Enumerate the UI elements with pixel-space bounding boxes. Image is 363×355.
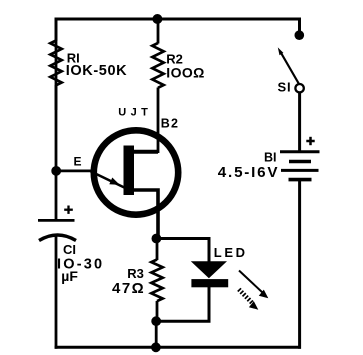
svg-text:IOOΩ: IOOΩ: [166, 64, 205, 80]
battery B1: [280, 152, 320, 180]
diode LED cathode bar: [191, 279, 228, 287]
capacitor C1 top plate: [38, 219, 75, 222]
LED light arrow 2 (hatched): [239, 289, 258, 309]
node emitter junction dot: [51, 166, 61, 176]
transistor B1 lead: [130, 190, 158, 240]
node bottom rail junction dot: [151, 342, 161, 352]
diode LED triangle: [191, 261, 227, 278]
svg-text:IOK-50K: IOK-50K: [66, 63, 127, 79]
svg-text:BI: BI: [264, 151, 277, 165]
capacitor plus sign: [64, 206, 73, 214]
wire left lower vertical: [55, 234, 58, 349]
wire R3 to bottom rail: [155, 321, 158, 347]
svg-text:47Ω: 47Ω: [112, 280, 145, 297]
wire LED branch bottom: [156, 287, 209, 321]
transistor B2 lead: [130, 150, 158, 154]
svg-text:CI: CI: [63, 242, 76, 257]
node switch upper contact dot: [295, 30, 305, 40]
wire top horizontal: [55, 18, 301, 21]
wire switch to battery: [298, 93, 301, 151]
resistor R1: [50, 19, 61, 110]
wire emitter horizontal: [56, 169, 92, 172]
switch S1: [278, 47, 304, 92]
svg-text:LED: LED: [214, 245, 248, 260]
battery plus sign: [306, 137, 314, 145]
svg-text:UJT: UJT: [118, 106, 152, 118]
transistor emitter arrow: [91, 171, 125, 187]
wire battery to bottom rail: [298, 181, 301, 349]
svg-text:SI: SI: [278, 79, 292, 94]
LED light arrow 1: [239, 271, 268, 299]
svg-text:4.5-I6V: 4.5-I6V: [218, 164, 280, 181]
svg-text:E: E: [74, 154, 82, 168]
svg-text:B2: B2: [161, 117, 179, 131]
node junction top (R2 to top rail): [152, 14, 162, 24]
wire LED branch top: [156, 239, 209, 263]
wire bottom horizontal: [55, 346, 301, 349]
svg-text:R3: R3: [127, 266, 144, 281]
node R3 top junction dot: [152, 234, 162, 244]
op: UJT transistor U1 circle: [94, 130, 178, 214]
resistor R3: [151, 238, 162, 322]
node R3 bottom junction dot: [151, 316, 161, 326]
transistor base bar: [124, 146, 135, 196]
capacitor C1 curved plate: [39, 235, 76, 241]
wire top right stub: [298, 18, 301, 34]
wire left vertical: [55, 18, 58, 221]
svg-text:µF: µF: [61, 268, 78, 284]
resistor R2: [152, 19, 163, 153]
